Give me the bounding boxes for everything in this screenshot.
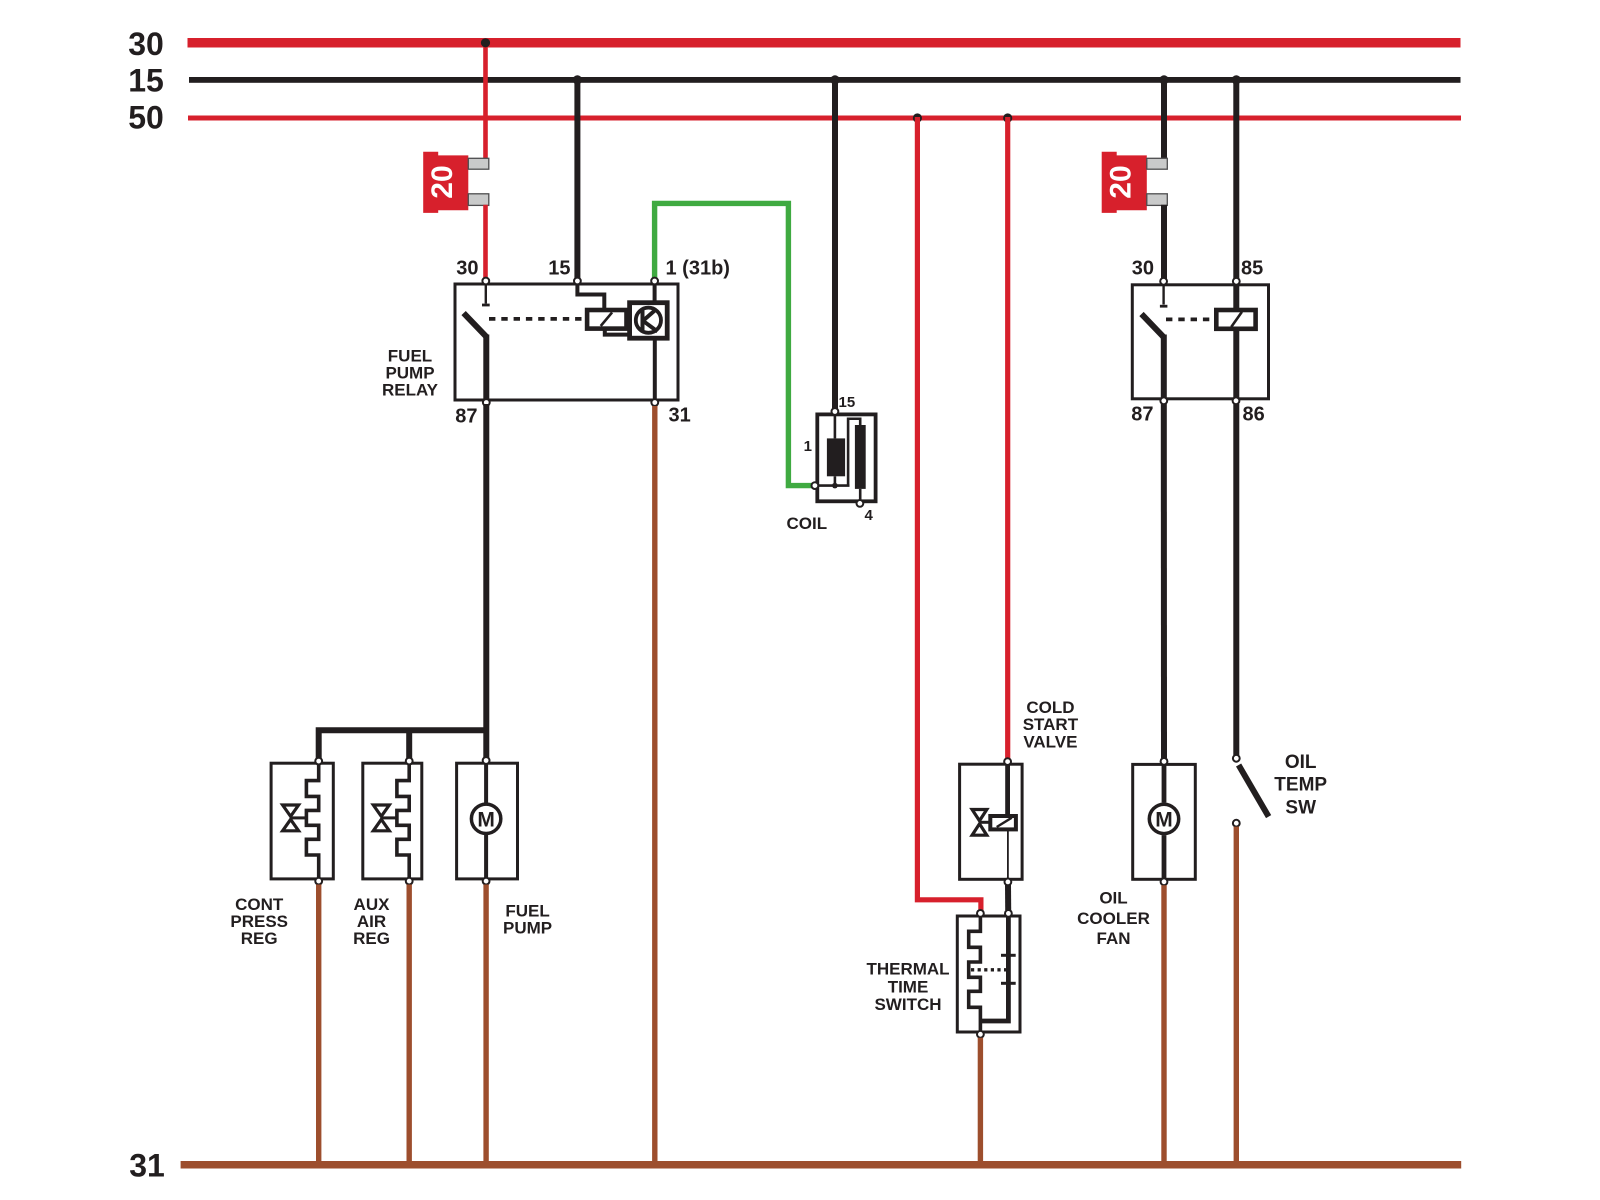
wire K2 pin86 to oil temp switch (black) xyxy=(1233,404,1239,755)
K2 pin labels xyxy=(1131,258,1265,426)
bus 15 (ignition) xyxy=(128,63,1460,99)
svg-text:15: 15 xyxy=(128,63,164,99)
coil secondary loop xyxy=(848,419,860,486)
wire bus15 to coil terminal 15 (black) xyxy=(830,75,839,408)
K1 control unit U1 (K in circle) xyxy=(630,303,668,339)
bus 31 (ground) xyxy=(129,1148,1461,1184)
fuel pump motor leads xyxy=(484,763,488,803)
wire bus15 to relay K1 pin15 (black) xyxy=(573,75,582,279)
thermal time switch dotted link xyxy=(971,968,1006,971)
aux air reg valve symbol xyxy=(373,805,397,831)
wire fuel pump to bus31 (brown) xyxy=(483,885,488,1162)
svg-text:OIL: OIL xyxy=(1285,752,1317,773)
cold start valve pins xyxy=(1004,758,1011,885)
wire bus15 to fuse F2 (black) xyxy=(1159,75,1168,159)
cold start valve injector valve symbol xyxy=(972,810,990,836)
svg-text:COOLER: COOLER xyxy=(1077,909,1150,928)
wire bus30 to fuse F1 (red) xyxy=(483,42,488,159)
fuse F2 20A xyxy=(1102,152,1168,213)
svg-text:86: 86 xyxy=(1243,404,1265,426)
cont press reg heater element xyxy=(306,763,318,878)
svg-text:30: 30 xyxy=(456,258,478,280)
svg-text:M: M xyxy=(1155,809,1173,832)
oil temp switch xyxy=(1233,752,1328,827)
K1 switch blade xyxy=(464,313,487,337)
svg-text:RELAY: RELAY xyxy=(382,381,439,400)
svg-text:87: 87 xyxy=(1131,404,1153,426)
oil cooler fan M2 xyxy=(1077,764,1195,948)
K1 contact stem from pin30 xyxy=(485,284,487,304)
auxiliary air regulator xyxy=(353,763,422,948)
coil primary winding xyxy=(827,438,845,476)
wire thermal time switch to bus31 (brown) xyxy=(978,1038,983,1161)
svg-text:COLD: COLD xyxy=(1026,698,1074,717)
svg-text:OIL: OIL xyxy=(1099,889,1127,908)
cold start valve lower lead xyxy=(1007,829,1009,878)
K2 wire pin85 to coil xyxy=(1233,285,1239,310)
coil primary lead to terminal 1 xyxy=(834,476,837,485)
wire fuse F1 to relay K1 pin30 (red) xyxy=(483,205,488,279)
K1 wire pin15 to relay coil xyxy=(577,284,604,310)
K2 actuation dashed link xyxy=(1166,317,1216,321)
K2 pin terminals xyxy=(1160,278,1240,404)
relay K1 fuel pump relay xyxy=(382,284,678,400)
svg-text:START: START xyxy=(1023,715,1079,734)
K2 fixed contact bar xyxy=(1160,305,1168,308)
junction bus30/F1 xyxy=(481,38,490,47)
cold start valve feed lead xyxy=(1005,764,1010,816)
aux air reg pins xyxy=(406,758,413,885)
svg-text:SW: SW xyxy=(1285,797,1316,818)
wire oil cooler fan to bus31 (brown) xyxy=(1161,885,1166,1161)
wire bus15 to relay K2 pin85 (black) xyxy=(1232,75,1241,279)
svg-text:1: 1 xyxy=(804,438,812,455)
thermal time switch pins xyxy=(977,910,1012,1038)
svg-text:50: 50 xyxy=(128,100,164,136)
cold start valve solenoid xyxy=(990,816,1016,829)
fuse F1 20A xyxy=(423,152,489,213)
K1 blade to pin87 wire xyxy=(483,335,489,402)
K1 pin labels xyxy=(455,258,730,428)
wire bus50 to cold start valve (red) xyxy=(1003,113,1012,758)
svg-text:TIME: TIME xyxy=(888,977,929,996)
K2 relay coil (solenoid) xyxy=(1216,310,1255,329)
thermal time switch heater element xyxy=(969,916,981,1031)
aux air reg heater element xyxy=(397,763,409,878)
coil secondary winding xyxy=(855,425,866,489)
svg-text:31: 31 xyxy=(129,1148,165,1184)
oil cooler fan motor symbol xyxy=(1149,804,1178,833)
svg-text:31: 31 xyxy=(669,405,691,427)
svg-text:87: 87 xyxy=(455,406,477,428)
wire oil temp switch to bus31 (brown) xyxy=(1234,827,1239,1161)
oil cooler fan pins xyxy=(1161,758,1168,885)
bus 30 (battery +) xyxy=(128,26,1460,62)
wire aux air reg to bus31 (brown) xyxy=(407,885,412,1162)
svg-text:4: 4 xyxy=(865,507,874,524)
svg-text:REG: REG xyxy=(241,929,278,948)
svg-text:20: 20 xyxy=(1105,165,1138,198)
svg-text:TEMP: TEMP xyxy=(1274,775,1327,796)
svg-text:PUMP: PUMP xyxy=(503,919,552,938)
svg-text:SWITCH: SWITCH xyxy=(874,995,941,1014)
svg-text:COIL: COIL xyxy=(786,514,827,533)
svg-text:REG: REG xyxy=(353,929,390,948)
coil node terminal1 xyxy=(818,483,850,489)
fuel pump M1 xyxy=(457,763,553,937)
cont press reg pins xyxy=(315,758,322,885)
K2 blade to pin87 wire xyxy=(1161,335,1167,401)
svg-text:85: 85 xyxy=(1241,258,1263,280)
bus 50 (start) xyxy=(128,100,1461,136)
thermal time switch contact branch xyxy=(980,916,1015,1021)
K2 contact stem from pin30 xyxy=(1162,285,1164,305)
wire K2 pin87 to oil cooler fan (black) xyxy=(1161,404,1167,758)
cont press reg valve symbol xyxy=(283,805,307,831)
wire cont press reg to bus31 (brown) xyxy=(316,885,321,1162)
K1 wire coil to control unit K xyxy=(605,329,630,335)
control pressure regulator xyxy=(230,763,333,948)
branch wire to cont press reg (black) xyxy=(319,730,487,759)
wire bus50 to thermal time switch (red) xyxy=(913,113,981,910)
svg-text:THERMAL: THERMAL xyxy=(866,960,949,979)
branch wire to aux air reg (black) xyxy=(406,730,412,759)
K2 wire coil to pin86 xyxy=(1233,329,1239,400)
svg-text:30: 30 xyxy=(128,26,164,62)
svg-text:VALVE: VALVE xyxy=(1023,732,1077,751)
oil cooler fan motor leads xyxy=(1162,764,1167,802)
svg-text:20: 20 xyxy=(426,165,459,198)
wire K1 pin87 to fuel pump (black) xyxy=(483,404,489,758)
cold start valve xyxy=(960,698,1079,879)
fuel pump pins xyxy=(483,757,490,884)
coil pin terminals xyxy=(812,408,864,507)
K1 pin terminals xyxy=(482,278,658,406)
wire fuse F2 to relay K2 pin30 (black) xyxy=(1161,205,1167,279)
wire K1 pin31 to bus31 (brown) xyxy=(652,406,657,1161)
svg-text:30: 30 xyxy=(1132,258,1154,280)
coil secondary lead to terminal 4 xyxy=(859,489,862,501)
K1 relay coil (solenoid) xyxy=(587,310,626,329)
fuel pump motor symbol xyxy=(471,804,500,833)
coil primary lead from terminal 15 xyxy=(834,414,837,438)
K1 wire pin1 to control unit xyxy=(653,284,657,303)
wire relay K1 pin1 to coil terminal 1 (green) xyxy=(655,203,813,485)
relay K2 oil cooler fan relay xyxy=(1132,285,1268,399)
svg-text:15: 15 xyxy=(839,394,856,411)
thermal time switch xyxy=(866,916,1020,1032)
K1 actuation dashed link xyxy=(489,317,586,321)
svg-text:15: 15 xyxy=(548,258,570,280)
K1 fixed contact bar xyxy=(482,304,490,307)
K2 switch blade xyxy=(1142,314,1164,337)
svg-text:1 (31b): 1 (31b) xyxy=(666,258,730,280)
wire cold start valve to thermal time switch (black) xyxy=(1005,885,1011,910)
ignition coil xyxy=(786,414,875,533)
K1 wire control unit to pin31 xyxy=(653,338,657,401)
svg-text:FAN: FAN xyxy=(1097,929,1131,948)
svg-text:M: M xyxy=(477,808,495,831)
coil pin labels xyxy=(804,394,874,524)
